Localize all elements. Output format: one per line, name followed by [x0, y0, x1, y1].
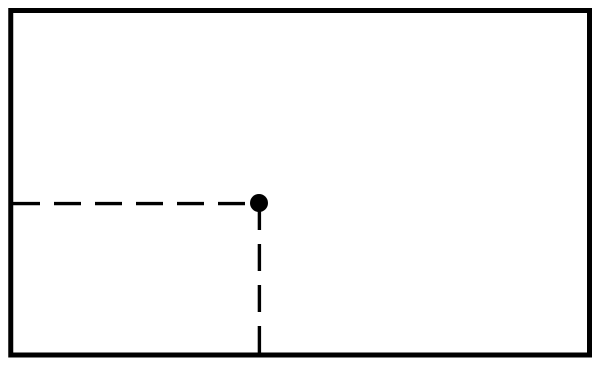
node A: filled point marker	[250, 194, 268, 212]
wire: dashed horizontal segment from left border to node	[13, 202, 250, 205]
wire: dashed vertical segment from node to bottom border	[258, 203, 261, 353]
